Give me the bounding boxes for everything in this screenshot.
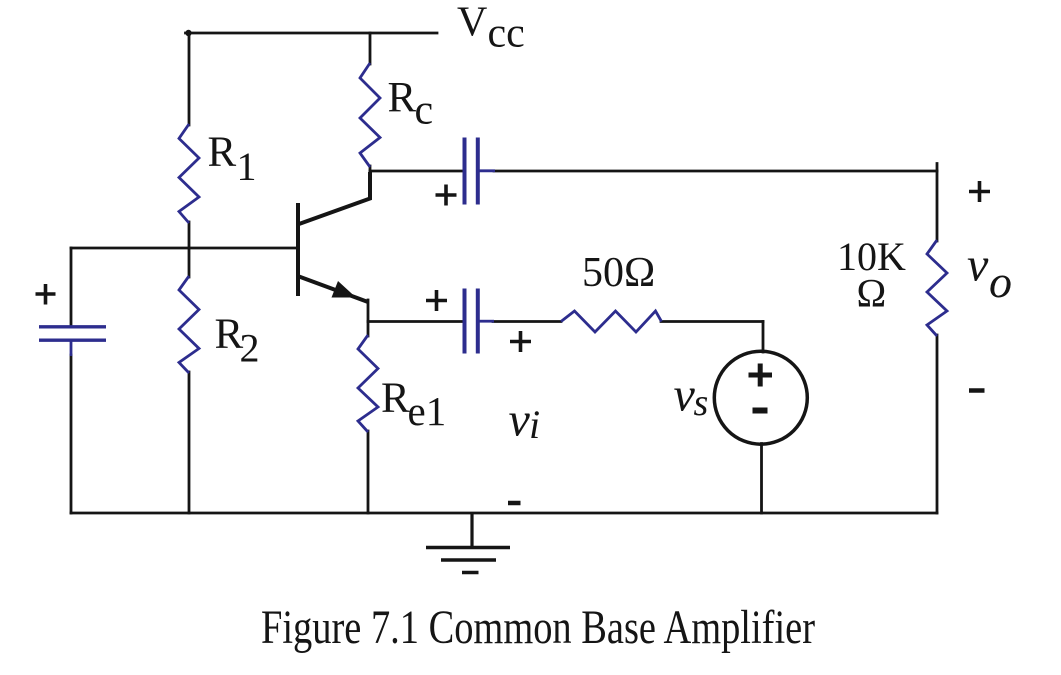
svg-text:o: o bbox=[989, 256, 1012, 307]
wire Rc branch from top rail bbox=[369, 33, 372, 64]
svg-text:R: R bbox=[208, 129, 237, 176]
plus sign input capacitor left bbox=[426, 299, 447, 303]
wire Re1 to bottom rail bbox=[367, 431, 370, 513]
capacitor C bypass left plates bbox=[39, 325, 106, 328]
wire Rc bottom to collector node bbox=[369, 166, 372, 172]
plus sign output capacitor bbox=[436, 193, 457, 197]
wire output capacitor to right rail bbox=[494, 170, 937, 173]
plus sign output right rail bbox=[969, 190, 990, 194]
svg-text:s: s bbox=[694, 382, 709, 424]
plus inside vs bbox=[749, 364, 773, 387]
wire between R1 and R2 bbox=[188, 222, 191, 277]
wire emitter node to input capacitor bbox=[368, 320, 463, 323]
svg-text:v: v bbox=[509, 394, 531, 447]
svg-text:2: 2 bbox=[240, 326, 260, 371]
wire R1 branch from top rail bbox=[188, 33, 191, 125]
capacitor C input plates bbox=[463, 289, 467, 354]
wire input capacitor to source resistor bbox=[493, 320, 561, 323]
resistor R1 bbox=[179, 124, 199, 223]
wire source resistor to vs corner bbox=[661, 320, 763, 323]
svg-text:Figure 7.1 Common Base Amplifi: Figure 7.1 Common Base Amplifier bbox=[261, 601, 815, 654]
svg-text:cc: cc bbox=[488, 11, 525, 57]
wire bottom ground rail bbox=[71, 512, 937, 515]
svg-text:1: 1 bbox=[237, 144, 257, 189]
plus sign left capacitor bbox=[36, 292, 56, 296]
wire right rail upper segment bbox=[936, 164, 939, 242]
wire left capacitor to bottom rail bbox=[70, 355, 73, 513]
wire R2 to bottom rail bbox=[188, 372, 191, 513]
wire load resistor to bottom rail bbox=[936, 335, 939, 513]
resistor RL 10K bbox=[927, 240, 947, 336]
svg-text:R: R bbox=[381, 375, 410, 422]
minus inside vs bbox=[753, 408, 768, 414]
minus sign vi bbox=[508, 501, 521, 506]
source vs circle bbox=[714, 351, 807, 444]
resistor Rs 50ohm bbox=[561, 311, 662, 332]
transistor Q1 bbox=[298, 172, 370, 302]
resistor Rc bbox=[360, 63, 380, 167]
svg-text:e1: e1 bbox=[408, 388, 447, 434]
svg-text:50Ω: 50Ω bbox=[582, 250, 655, 296]
node top-left corner bbox=[185, 30, 191, 36]
plus sign input capacitor right bbox=[510, 340, 531, 344]
capacitor C output plates bbox=[463, 138, 467, 205]
svg-text:c: c bbox=[415, 88, 434, 134]
resistor R2 bbox=[179, 276, 199, 373]
svg-text:R: R bbox=[388, 75, 417, 122]
wire corner down to vs source bbox=[762, 322, 765, 353]
svg-text:v: v bbox=[967, 239, 989, 292]
wire vs source to bottom rail bbox=[760, 444, 763, 514]
wire left branch down to bypass capacitor bbox=[70, 248, 73, 326]
svg-text:i: i bbox=[529, 402, 540, 447]
wire emitter branch down to Re1 bbox=[367, 300, 370, 336]
minus sign vo bbox=[969, 388, 985, 393]
svg-text:Ω: Ω bbox=[857, 271, 887, 316]
ground symbol bbox=[426, 513, 510, 573]
wire collector node to output capacitor bbox=[370, 170, 463, 173]
wire base node horizontal bbox=[71, 247, 297, 250]
wire Vcc top rail bbox=[186, 32, 438, 35]
svg-text:V: V bbox=[457, 0, 487, 46]
svg-text:v: v bbox=[674, 369, 696, 422]
resistor Re1 bbox=[358, 335, 378, 432]
